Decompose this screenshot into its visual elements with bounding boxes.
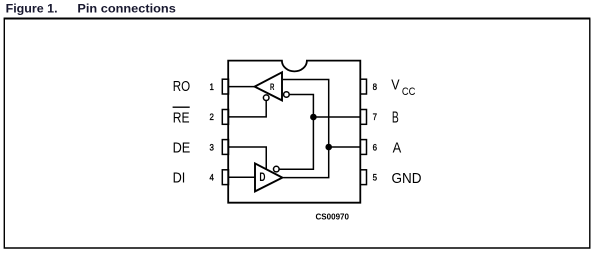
svg-text:3: 3 xyxy=(210,142,214,152)
wire receiver noninverting input to A net xyxy=(283,80,329,178)
junction node B xyxy=(310,114,317,121)
wire A net to pin 6 xyxy=(329,146,361,148)
svg-text:V: V xyxy=(391,78,400,94)
IC package body with notch xyxy=(228,61,360,203)
wire B net to pin 7 xyxy=(313,116,360,118)
wire receiver inverting input to B net xyxy=(279,95,313,170)
wire pin3 DE to driver enable xyxy=(228,147,266,169)
svg-text:DI: DI xyxy=(173,170,186,187)
receiver op-amp R xyxy=(255,72,282,100)
svg-text:CC: CC xyxy=(402,86,416,98)
pin 4 box xyxy=(222,170,228,185)
wire pin2 RE to receiver enable xyxy=(228,101,266,117)
wire pin4 DI to driver input xyxy=(228,176,255,178)
title rule / figure frame top border xyxy=(4,18,591,20)
pin 7 box xyxy=(360,110,366,125)
receiver enable bubble xyxy=(263,95,269,101)
svg-text:B: B xyxy=(392,110,399,127)
svg-text:DE: DE xyxy=(173,139,191,156)
svg-text:RO: RO xyxy=(173,78,190,95)
pin 5 box xyxy=(360,170,366,185)
wire pin1 to receiver output xyxy=(228,86,254,88)
pin 1 box xyxy=(222,79,228,94)
svg-text:8: 8 xyxy=(373,82,377,92)
svg-text:5: 5 xyxy=(373,173,377,183)
svg-text:CS00970: CS00970 xyxy=(316,211,350,221)
pin 6 box xyxy=(360,140,366,155)
svg-text:4: 4 xyxy=(210,173,214,183)
svg-text:1: 1 xyxy=(210,82,214,92)
svg-text:6: 6 xyxy=(373,142,377,152)
svg-text:GND: GND xyxy=(392,170,422,187)
pin 3 box xyxy=(222,140,228,155)
driver inverted output bubble xyxy=(274,166,280,172)
receiver inverting input bubble xyxy=(284,92,290,98)
svg-text:2: 2 xyxy=(210,112,214,122)
pin 8 box xyxy=(360,79,366,94)
driver op-amp D xyxy=(255,163,282,191)
svg-text:Figure 1.: Figure 1. xyxy=(6,3,58,15)
svg-text:7: 7 xyxy=(373,112,377,122)
pin 2 box xyxy=(222,110,228,125)
svg-text:RE: RE xyxy=(173,109,190,126)
junction node A xyxy=(325,144,332,151)
svg-text:D: D xyxy=(259,171,265,184)
svg-text:R: R xyxy=(270,81,275,92)
svg-text:Pin connections: Pin connections xyxy=(77,3,175,15)
svg-text:A: A xyxy=(393,141,402,157)
